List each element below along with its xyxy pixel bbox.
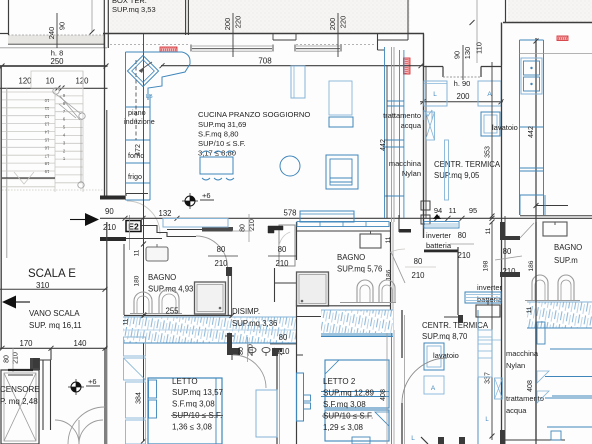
svg-text:CUCINA PRANZO SOGGIORNO: CUCINA PRANZO SOGGIORNO: [198, 110, 310, 119]
svg-text:408: 408: [527, 380, 534, 392]
svg-text:DISIMP.: DISIMP.: [232, 307, 260, 316]
svg-text:CENSORE: CENSORE: [0, 385, 40, 394]
svg-text:80: 80: [458, 231, 467, 240]
svg-text:11: 11: [123, 318, 130, 325]
svg-text:200: 200: [223, 18, 232, 31]
svg-text:SUP.mq 9,05: SUP.mq 9,05: [434, 171, 480, 180]
svg-text:SUP.mq 8,70: SUP.mq 8,70: [422, 332, 468, 341]
svg-text:10: 10: [46, 77, 55, 86]
svg-text:80: 80: [217, 245, 226, 254]
svg-text:80: 80: [240, 224, 247, 232]
svg-text:198: 198: [483, 260, 490, 271]
svg-text:acqua: acqua: [506, 406, 527, 415]
svg-text:A: A: [431, 385, 436, 392]
svg-text:210: 210: [214, 259, 228, 268]
svg-text:186: 186: [528, 260, 535, 271]
svg-text:384: 384: [136, 392, 143, 404]
svg-text:+6: +6: [88, 377, 97, 386]
svg-text:200: 200: [328, 18, 337, 31]
svg-text:19: 19: [44, 169, 49, 174]
svg-text:3,17 ≤ 8,80: 3,17 ≤ 8,80: [198, 149, 236, 158]
svg-text:94: 94: [434, 206, 442, 215]
svg-text:macchina: macchina: [389, 159, 422, 168]
svg-text:18: 18: [44, 161, 49, 166]
svg-text:170: 170: [19, 339, 33, 348]
svg-text:442: 442: [528, 126, 535, 138]
svg-text:S.F.mq 3,08: S.F.mq 3,08: [323, 400, 366, 409]
svg-text:337: 337: [485, 372, 492, 384]
svg-text:472: 472: [135, 144, 142, 156]
svg-text:15: 15: [44, 138, 49, 143]
svg-text:353: 353: [485, 146, 492, 158]
svg-text:11: 11: [385, 236, 392, 243]
svg-text:inverter: inverter: [426, 231, 452, 240]
svg-text:BAGNO: BAGNO: [554, 243, 582, 252]
svg-text:120: 120: [18, 77, 32, 86]
svg-text:90: 90: [105, 207, 114, 216]
svg-text:lavatoio: lavatoio: [492, 123, 518, 132]
svg-text:piano: piano: [128, 108, 146, 117]
svg-text:255: 255: [165, 307, 179, 316]
svg-text:SUP.mq 12,89: SUP.mq 12,89: [323, 389, 375, 398]
svg-text:L: L: [433, 91, 437, 98]
svg-text:220: 220: [234, 16, 243, 29]
svg-text:210: 210: [249, 219, 256, 231]
svg-text:210: 210: [103, 223, 117, 232]
svg-text:Nylan: Nylan: [506, 361, 525, 370]
svg-text:11: 11: [134, 249, 141, 256]
svg-text:186: 186: [386, 269, 393, 280]
svg-text:250: 250: [50, 57, 64, 66]
svg-text:210: 210: [411, 271, 425, 280]
svg-text:SUP.mq 3,53: SUP.mq 3,53: [112, 5, 156, 14]
svg-text:180: 180: [134, 275, 141, 286]
svg-text:S.F.mq 3,08: S.F.mq 3,08: [172, 400, 215, 409]
svg-text:batteria: batteria: [426, 241, 452, 250]
svg-text:LB: LB: [146, 94, 153, 100]
svg-text:140: 140: [73, 339, 87, 348]
svg-text:120: 120: [75, 77, 89, 86]
svg-text:11: 11: [485, 227, 492, 234]
svg-text:S.F.mq 8,80: S.F.mq 8,80: [198, 130, 239, 139]
svg-text:h. 90: h. 90: [454, 79, 471, 88]
svg-text:1,29 ≤ 3,08: 1,29 ≤ 3,08: [323, 423, 364, 432]
svg-text:SUP.mq 13,57: SUP.mq 13,57: [172, 388, 224, 397]
svg-text:P. mq 2,48: P. mq 2,48: [0, 397, 38, 406]
svg-text:210: 210: [13, 352, 20, 364]
svg-text:SUP. mq 16,11: SUP. mq 16,11: [29, 321, 82, 330]
svg-text:LETTO: LETTO: [172, 377, 198, 386]
svg-text:130: 130: [463, 47, 472, 60]
svg-text:240: 240: [47, 27, 56, 40]
svg-text:VANO SCALA: VANO SCALA: [29, 309, 80, 318]
svg-text:SUP/10 ≤ S.F.: SUP/10 ≤ S.F.: [198, 139, 246, 148]
svg-text:BAGNO: BAGNO: [337, 253, 365, 262]
svg-text:11: 11: [526, 306, 533, 313]
svg-text:210: 210: [457, 251, 471, 260]
svg-text:14: 14: [44, 130, 49, 135]
svg-text:210: 210: [248, 344, 255, 356]
svg-text:200: 200: [456, 92, 470, 101]
svg-text:442: 442: [380, 139, 387, 151]
svg-text:80: 80: [238, 347, 245, 355]
svg-text:macchina: macchina: [506, 349, 539, 358]
svg-text:80: 80: [503, 247, 512, 256]
svg-text:11: 11: [449, 206, 457, 215]
svg-text:LETTO 2: LETTO 2: [323, 377, 356, 386]
svg-text:SUP.mq 3,36: SUP.mq 3,36: [232, 319, 277, 328]
svg-text:trattamento: trattamento: [383, 111, 421, 120]
svg-text:SUP.mq 31,69: SUP.mq 31,69: [198, 120, 246, 129]
svg-text:1,36 ≤ 3,08: 1,36 ≤ 3,08: [172, 423, 213, 432]
svg-text:80: 80: [278, 245, 287, 254]
svg-text:CENTR. TERMICA: CENTR. TERMICA: [422, 321, 489, 330]
svg-text:12: 12: [44, 114, 49, 119]
svg-text:SCALA E: SCALA E: [28, 268, 76, 280]
svg-text:acqua: acqua: [401, 121, 422, 130]
svg-text:578: 578: [283, 209, 296, 218]
svg-text:SUP.m: SUP.m: [554, 256, 578, 265]
svg-text:90: 90: [58, 22, 67, 30]
svg-text:induzione: induzione: [124, 117, 155, 126]
svg-text:SUP.mq 5,76: SUP.mq 5,76: [337, 265, 382, 274]
svg-text:80: 80: [4, 355, 11, 363]
svg-text:frigo: frigo: [128, 172, 142, 181]
svg-text:310: 310: [36, 281, 50, 290]
svg-text:110: 110: [475, 42, 484, 54]
svg-text:220: 220: [339, 16, 348, 29]
svg-text:+6: +6: [202, 191, 211, 200]
svg-text:Nylan: Nylan: [402, 169, 421, 178]
svg-text:95: 95: [469, 206, 477, 215]
svg-text:708: 708: [258, 57, 272, 66]
svg-text:11: 11: [44, 106, 49, 111]
svg-text:L: L: [411, 435, 415, 442]
svg-text:408: 408: [380, 389, 387, 401]
svg-text:13: 13: [44, 122, 49, 127]
svg-text:inverter: inverter: [477, 283, 503, 292]
svg-text:80: 80: [279, 333, 288, 342]
svg-text:BAGNO: BAGNO: [148, 273, 176, 282]
svg-text:CENTR. TERMICA: CENTR. TERMICA: [434, 160, 501, 169]
svg-text:132: 132: [158, 209, 171, 218]
svg-text:210: 210: [275, 259, 289, 268]
svg-text:17: 17: [44, 153, 49, 158]
svg-text:90: 90: [453, 51, 462, 59]
svg-text:80: 80: [414, 257, 423, 266]
svg-text:10: 10: [44, 98, 49, 103]
svg-text:16: 16: [44, 145, 49, 150]
